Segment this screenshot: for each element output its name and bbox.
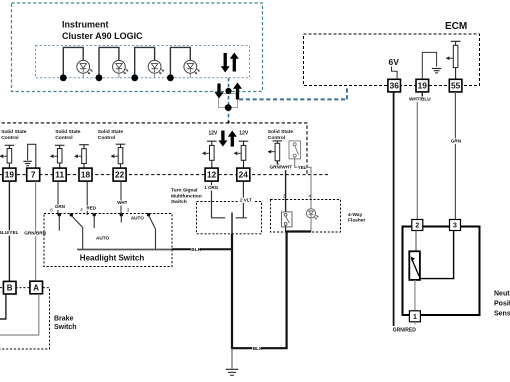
svg-text:YEL: YEL [298, 165, 307, 170]
svg-text:Control: Control [98, 135, 116, 141]
svg-text:22: 22 [115, 170, 125, 180]
svg-text:WHT: WHT [117, 200, 127, 205]
svg-text:WHT/BLU: WHT/BLU [409, 96, 431, 101]
svg-text:Headlight Switch: Headlight Switch [80, 253, 145, 262]
svg-text:RED: RED [87, 205, 97, 210]
svg-text:19: 19 [418, 81, 428, 91]
svg-text:Control: Control [268, 135, 286, 141]
svg-text:GRN/BRN: GRN/BRN [24, 231, 46, 236]
svg-text:BLK: BLK [253, 346, 263, 352]
svg-text:Cluster A90 LOGIC: Cluster A90 LOGIC [62, 31, 143, 41]
svg-text:Sensor: Sensor [494, 310, 510, 317]
svg-text:18: 18 [81, 170, 91, 180]
svg-text:Brake: Brake [54, 315, 74, 322]
svg-text:12: 12 [207, 170, 217, 180]
svg-text:Multifunction: Multifunction [171, 194, 202, 200]
svg-text:Control: Control [1, 135, 19, 141]
svg-text:24: 24 [239, 170, 249, 180]
svg-text:Switch: Switch [54, 324, 77, 331]
svg-text:GRN/WHT: GRN/WHT [270, 164, 293, 169]
svg-text:36: 36 [390, 81, 400, 91]
svg-text:ECM: ECM [445, 21, 467, 32]
svg-text:Switch: Switch [171, 199, 187, 205]
svg-text:GRN: GRN [55, 204, 65, 209]
svg-text:4-Way: 4-Way [348, 212, 363, 218]
svg-text:2: 2 [415, 223, 419, 230]
svg-text:1 ORG: 1 ORG [204, 185, 219, 190]
svg-text:19: 19 [5, 170, 15, 180]
svg-text:AUTO: AUTO [131, 215, 145, 220]
svg-text:BLK: BLK [191, 247, 201, 253]
svg-text:Position: Position [494, 301, 510, 308]
svg-text:A: A [33, 283, 39, 292]
svg-text:Solid State: Solid State [98, 129, 124, 135]
svg-text:3: 3 [453, 223, 457, 230]
svg-text:12V: 12V [209, 130, 219, 136]
svg-text:Flasher: Flasher [348, 218, 365, 224]
svg-text:GRN: GRN [451, 138, 462, 143]
svg-text:Solid State: Solid State [55, 129, 81, 135]
svg-text:Neutral: Neutral [494, 291, 510, 298]
svg-text:6V: 6V [389, 57, 400, 67]
svg-text:Control: Control [55, 135, 73, 141]
svg-text:12V: 12V [239, 130, 249, 136]
svg-text:Turn Signal: Turn Signal [171, 188, 198, 194]
svg-text:1: 1 [413, 314, 417, 321]
svg-text:55: 55 [451, 81, 461, 91]
svg-text:AUTO: AUTO [96, 235, 110, 240]
svg-text:7: 7 [31, 170, 36, 180]
svg-text:11: 11 [55, 170, 64, 180]
svg-text:BLU/YEL: BLU/YEL [0, 230, 19, 235]
svg-text:GRN/RED: GRN/RED [393, 327, 416, 333]
svg-text:B: B [7, 284, 13, 293]
svg-text:Solid State: Solid State [268, 129, 294, 135]
svg-text:2 VLT: 2 VLT [240, 197, 252, 202]
svg-text:Instrument: Instrument [62, 20, 109, 30]
svg-text:Solid State: Solid State [1, 129, 27, 135]
